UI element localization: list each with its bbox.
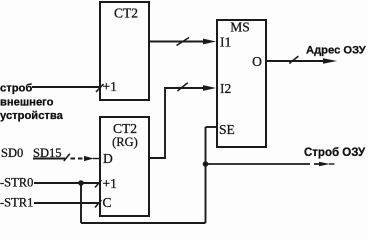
bus slash on I2 wire — [178, 83, 188, 91]
svg-text:строб: строб — [0, 83, 32, 95]
svg-text:I1: I1 — [220, 35, 231, 50]
svg-text:устройства: устройства — [0, 110, 64, 122]
svg-text:CT2: CT2 — [113, 121, 137, 136]
wire from -STR0 junction down — [80, 183, 82, 223]
svg-text:внешнего: внешнего — [0, 97, 54, 109]
svg-text:CT2: CT2 — [114, 6, 138, 21]
bus slash on address OZU wire — [289, 56, 298, 63]
svg-text:MS: MS — [230, 20, 250, 35]
svg-text:D: D — [103, 151, 113, 166]
arrowhead into I2 — [203, 85, 216, 91]
register D2 box CT2 (RG) — [100, 117, 149, 216]
dynamic-input slash at C of register D2 — [95, 200, 101, 208]
arrowhead into D — [84, 156, 94, 161]
wire address OZU output from O — [266, 60, 332, 62]
svg-text:SE: SE — [219, 122, 235, 137]
junction dot on -STR0 wire — [78, 180, 84, 186]
svg-text:C: C — [103, 195, 112, 210]
dynamic-input slash at +1 of register D2 — [95, 180, 101, 188]
svg-text:-STR1: -STR1 — [0, 196, 33, 210]
wire register D2 output to I2 of multiplexer D3 — [149, 88, 209, 158]
dynamic-input slash at +1 of counter D1 — [96, 84, 104, 92]
wire SD0..SD15 data bus into D (dashed) — [33, 158, 65, 160]
wire strobe input to +1 of counter D1 — [32, 86, 100, 88]
svg-text:+1: +1 — [103, 79, 117, 94]
svg-text:Адрес ОЗУ: Адрес ОЗУ — [306, 45, 367, 57]
wire strobe OZU output — [206, 163, 311, 165]
arrowhead address OZU — [323, 58, 337, 64]
wire into SE pin — [206, 126, 218, 128]
multiplexer D3 box MS — [217, 20, 266, 147]
svg-text:SD15: SD15 — [33, 146, 61, 160]
bus slash on D1 output wire — [177, 38, 190, 46]
svg-text:(RG): (RG) — [112, 135, 138, 149]
svg-text:SD0: SD0 — [1, 146, 23, 160]
svg-text:Строб ОЗУ: Строб ОЗУ — [304, 147, 366, 159]
wire -STR0 to +1 of register D2 — [34, 182, 100, 184]
svg-text:O: O — [252, 54, 262, 69]
arrowhead into I1 — [203, 39, 216, 45]
svg-text:-STR0: -STR0 — [0, 176, 33, 190]
bus slash on SD data bus — [64, 154, 70, 161]
wire bottom horizontal run — [81, 222, 206, 224]
arrowhead strobe OZU — [319, 162, 330, 167]
wire counter D1 output to I1 of multiplexer D3 — [149, 41, 209, 43]
counter D1 box CT2 — [100, 2, 149, 100]
junction dot on SE / strobe OZU net — [203, 161, 209, 167]
svg-text:+1: +1 — [103, 176, 117, 191]
wire right vertical run up to SE — [205, 127, 207, 223]
svg-text:I2: I2 — [220, 81, 231, 96]
wire -STR1 to C of register D2 — [34, 202, 100, 204]
